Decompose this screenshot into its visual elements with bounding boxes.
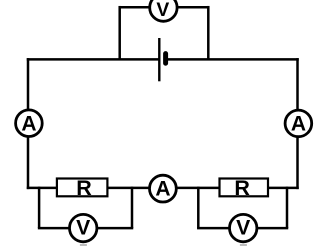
ammeter A3 (bottom middle) circle bbox=[150, 175, 177, 202]
svg-text:R: R bbox=[76, 176, 92, 200]
svg-text:V: V bbox=[236, 217, 250, 240]
wire: right main vertical bbox=[296, 58, 299, 189]
svg-text:V: V bbox=[76, 217, 90, 240]
battery cell long plate bbox=[158, 38, 160, 81]
wire: left voltmeter branch left vertical bbox=[38, 187, 41, 228]
svg-text:A: A bbox=[291, 113, 306, 136]
wire: main bottom right segment bbox=[162, 187, 299, 190]
voltmeter V1 (top) circle bbox=[150, 0, 177, 21]
wire: main bottom left segment bbox=[27, 187, 162, 190]
ammeter A1 (left) circle bbox=[16, 110, 43, 137]
voltmeter V3 (bottom right) circle bbox=[230, 214, 257, 241]
wire: top voltmeter branch right vertical bbox=[207, 6, 210, 59]
wire: right voltmeter branch horizontal bbox=[197, 227, 288, 230]
wire: right voltmeter branch right vertical bbox=[286, 187, 289, 228]
wire: top voltmeter branch horizontal bbox=[119, 6, 209, 9]
resistor R2 (right) box bbox=[220, 179, 269, 197]
wire: top voltmeter branch left vertical bbox=[118, 6, 121, 59]
wire: left main vertical bbox=[27, 58, 30, 189]
wire stub (gray, cut off at bottom) under V3 bbox=[240, 244, 247, 246]
voltmeter V2 (bottom left) circle bbox=[70, 214, 97, 241]
wire: right voltmeter branch left vertical bbox=[197, 187, 200, 228]
ammeter A2 (right) circle bbox=[285, 110, 312, 137]
svg-text:R: R bbox=[234, 176, 250, 200]
wire: left voltmeter branch horizontal bbox=[38, 227, 133, 230]
resistor R1 (left) box bbox=[57, 179, 108, 197]
wire: left voltmeter branch right vertical bbox=[131, 187, 134, 228]
wire: main top left segment to battery bbox=[27, 58, 160, 61]
svg-text:A: A bbox=[155, 178, 170, 201]
wire: main top right segment from battery bbox=[166, 58, 299, 61]
battery cell short thick plate bbox=[163, 54, 168, 64]
wire stub (gray, cut off at bottom) under V2 bbox=[80, 244, 87, 246]
svg-text:A: A bbox=[21, 112, 36, 135]
svg-text:V: V bbox=[156, 0, 169, 21]
